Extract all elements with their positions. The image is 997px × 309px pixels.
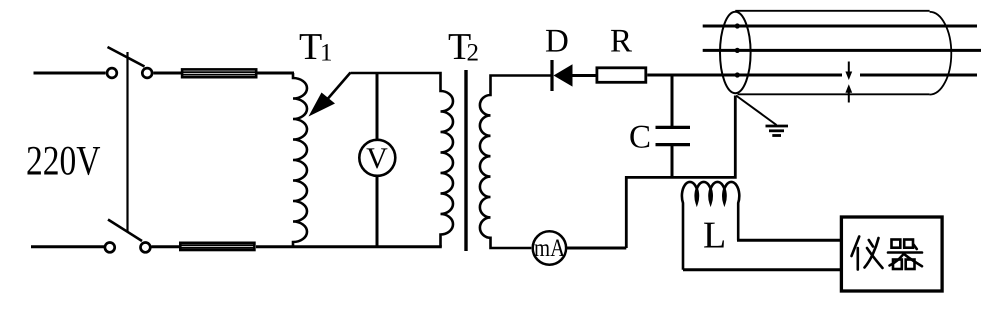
器 bottom-left square bbox=[893, 260, 902, 270]
cable end ellipse bbox=[720, 12, 751, 93]
仪 right-falling stroke bbox=[867, 248, 883, 268]
fuse FU2 bbox=[180, 243, 254, 250]
cable cylinder bottom outline bbox=[738, 93, 930, 95]
wire mA to node bbox=[566, 247, 626, 250]
svg-text:C: C bbox=[629, 120, 651, 156]
wire top-left input bbox=[34, 72, 106, 75]
svg-text:L: L bbox=[703, 215, 726, 257]
svg-text:2: 2 bbox=[467, 40, 480, 67]
capacitor C bottom lead bbox=[671, 146, 674, 177]
wire diode to resistor R bbox=[571, 74, 596, 77]
capacitor C top lead bbox=[671, 75, 674, 126]
cable conductor 1 bbox=[703, 25, 977, 28]
capacitor C bottom plate bbox=[656, 143, 691, 146]
inductor L winding bbox=[682, 182, 739, 270]
node wire mA-right up and across to cable junction bbox=[626, 96, 735, 249]
ground lead diagonal bbox=[736, 96, 777, 126]
cable cylinder top outline bbox=[735, 10, 929, 12]
svg-text:R: R bbox=[610, 24, 632, 60]
switch S1 contact circle right bbox=[142, 68, 152, 78]
cable conductor 2 bbox=[703, 49, 981, 52]
conductor 3 right part after gap bbox=[860, 74, 977, 77]
voltmeter V bbox=[359, 140, 395, 176]
器 犬 right-falling stroke bbox=[904, 254, 923, 267]
milliammeter mA circle bbox=[533, 231, 566, 264]
fuse FU1 bbox=[182, 69, 256, 77]
switch gang link bbox=[126, 52, 128, 232]
wire switch to fuse FU1 bbox=[154, 72, 183, 75]
junction dot conductor 3 bbox=[735, 72, 740, 77]
instrument box bbox=[841, 217, 942, 291]
svg-text:220V: 220V bbox=[26, 139, 101, 185]
switch S2 contact circle left bbox=[105, 243, 115, 253]
cable cylinder right end arc bbox=[930, 12, 952, 95]
仪 person radical slash bbox=[852, 237, 860, 257]
voltmeter branch wire lower bbox=[376, 177, 379, 247]
器 犬 left-falling stroke bbox=[890, 254, 905, 266]
label 仪器 (drawn strokes) bbox=[852, 237, 923, 270]
switch S1 blade bbox=[108, 47, 145, 67]
transformer T2 primary winding bbox=[351, 73, 453, 247]
器 top-right square bbox=[904, 240, 913, 248]
器 top-left square bbox=[892, 240, 901, 248]
diode D triangle bbox=[554, 64, 573, 86]
resistor R bbox=[597, 68, 646, 83]
autotransformer T1 winding bbox=[293, 73, 307, 247]
仪 left-falling stroke bbox=[865, 238, 879, 268]
wire L left to instrument box bbox=[683, 268, 840, 271]
svg-text:V: V bbox=[366, 142, 388, 175]
switch S2 blade bbox=[108, 220, 142, 242]
T1 wiper arrow line bbox=[328, 73, 351, 99]
transformer T2 secondary winding bbox=[480, 76, 551, 249]
transformer T2 core bbox=[464, 70, 467, 251]
wire fuse FU1 to T1 bbox=[258, 72, 295, 75]
svg-text:1: 1 bbox=[320, 40, 333, 67]
仪 person radical vertical bbox=[856, 248, 859, 270]
wire switch to fuse FU2 bbox=[152, 245, 181, 248]
wire bottom run to T2 primary bbox=[256, 245, 442, 248]
wire R to cable (conductor 3 left part) bbox=[647, 74, 842, 77]
junction dot conductor 1 bbox=[735, 23, 740, 28]
switch S1 contact circle left bbox=[107, 68, 117, 78]
器 middle horizontal of 犬 bbox=[888, 251, 922, 254]
wire bottom-left input bbox=[31, 245, 105, 248]
器 犬 dot bbox=[914, 245, 917, 250]
svg-text:T: T bbox=[299, 26, 322, 68]
svg-text:D: D bbox=[545, 24, 569, 60]
voltmeter branch wire upper bbox=[376, 73, 379, 140]
T1 wiper arrowhead bbox=[309, 93, 336, 117]
junction dot conductor 2 bbox=[735, 48, 740, 53]
svg-text:mA: mA bbox=[534, 235, 565, 262]
仪 dot bbox=[869, 240, 873, 247]
gap arrow down bbox=[845, 62, 852, 81]
wire L right to instrument box bbox=[737, 239, 840, 242]
capacitor C top plate bbox=[656, 126, 691, 129]
diode D cathode bar bbox=[550, 60, 553, 91]
gap arrow up bbox=[845, 84, 852, 102]
switch S2 contact circle right bbox=[141, 243, 151, 253]
ground symbol bbox=[766, 126, 789, 136]
器 bottom-right square bbox=[906, 260, 915, 270]
